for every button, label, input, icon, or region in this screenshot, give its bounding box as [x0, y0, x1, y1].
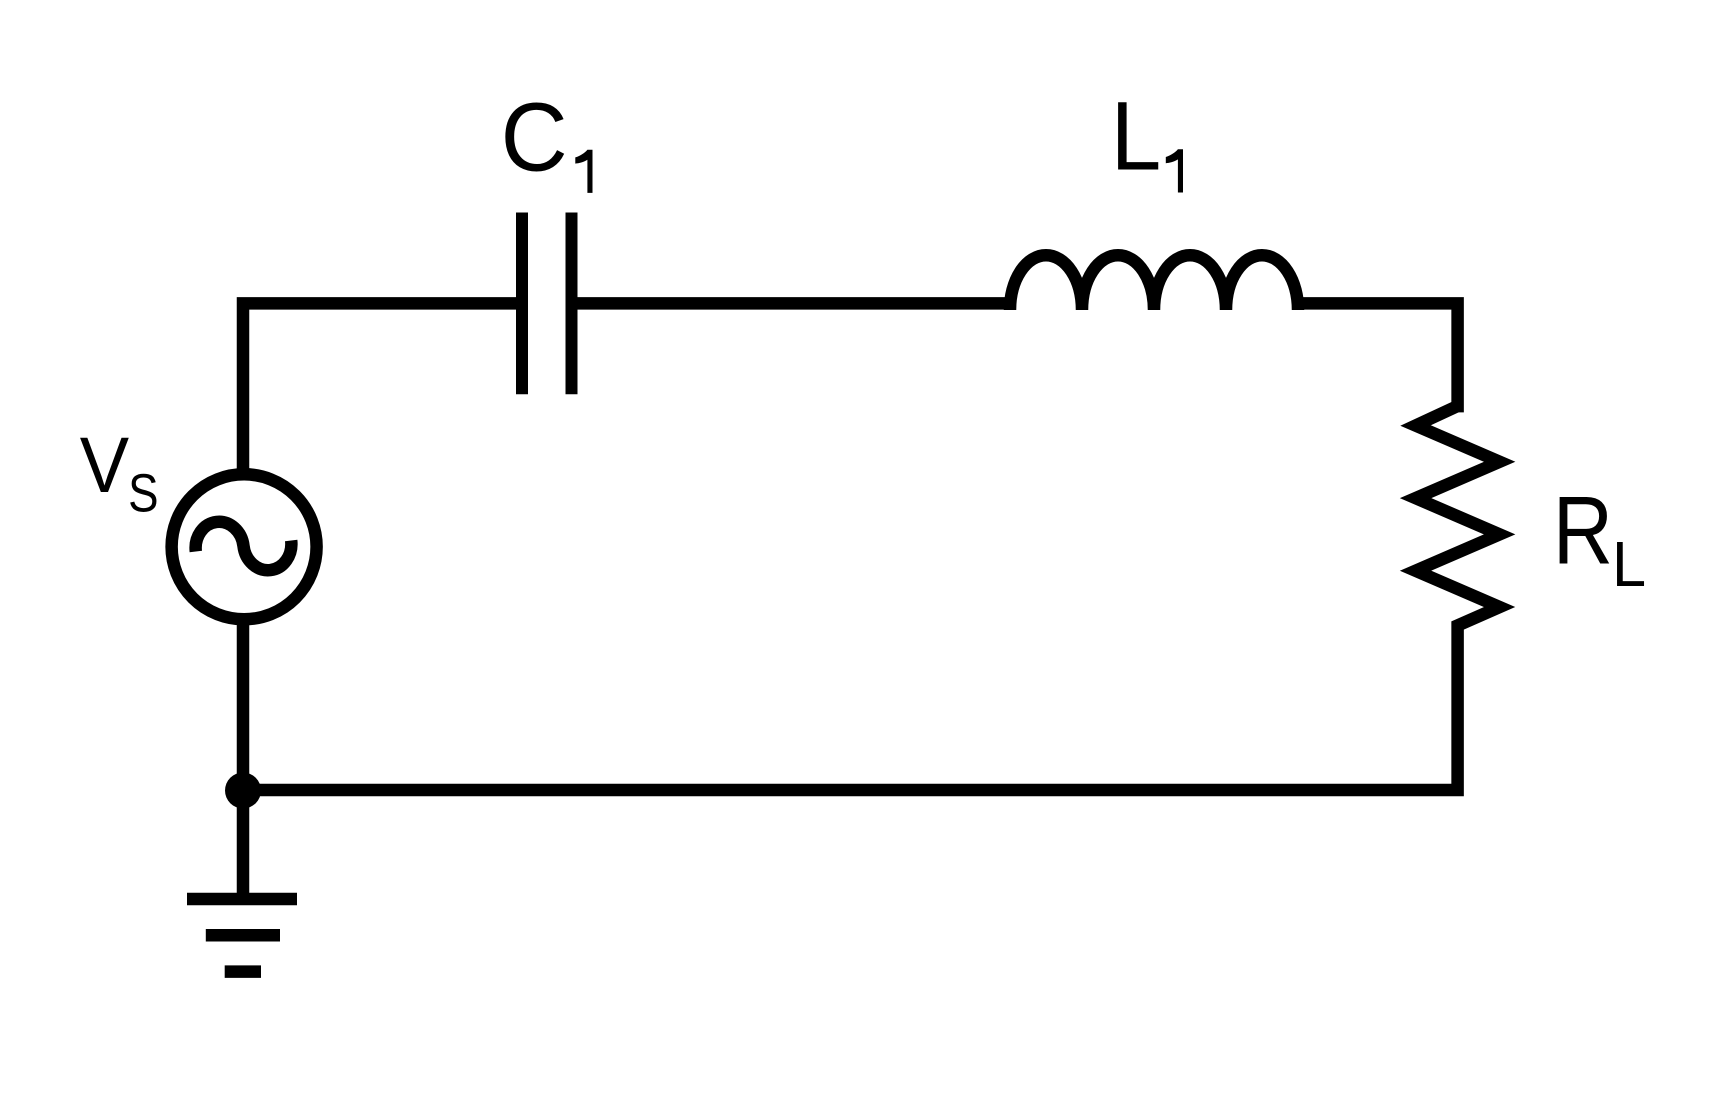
- wire top-left from source to capacitor: [243, 303, 522, 483]
- ground bar 3: [225, 965, 261, 978]
- node junction dot: [225, 773, 261, 809]
- wire from inductor to top-right corner down to resistor: [1294, 303, 1458, 412]
- inductor L1 coils: [1010, 255, 1298, 310]
- voltage source V_S circle: [172, 474, 317, 619]
- svg-text:V: V: [80, 422, 129, 510]
- resistor RL zigzag: [243, 406, 1500, 790]
- svg-text:L: L: [1111, 82, 1162, 191]
- wire between capacitor and inductor: [572, 297, 1015, 310]
- voltage source sine symbol: [193, 514, 295, 579]
- svg-text:C: C: [501, 83, 568, 192]
- svg-text:R: R: [1553, 477, 1613, 585]
- label C1 : subscript 1: [575, 150, 592, 193]
- svg-text:S: S: [128, 463, 158, 523]
- wire from source bottom through node to ground: [237, 610, 250, 899]
- svg-text:L: L: [1612, 529, 1646, 600]
- label L1 : subscript 1: [1166, 149, 1183, 192]
- ground bar 1: [187, 893, 297, 906]
- ground bar 2: [206, 929, 280, 942]
- capacitor C1 plates: [522, 213, 572, 395]
